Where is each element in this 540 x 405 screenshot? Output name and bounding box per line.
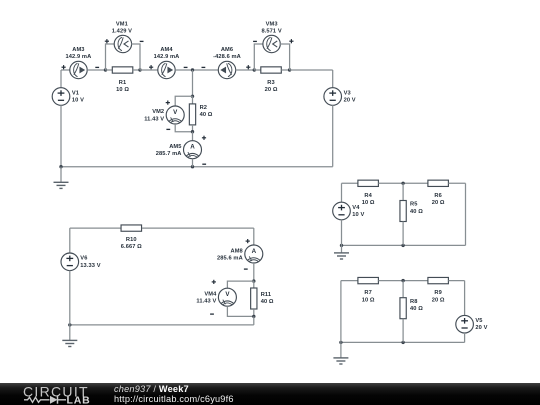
wire V3 top lead — [332, 70, 334, 88]
voltage source V5 — [456, 315, 474, 333]
wire to AM5 — [192, 132, 194, 141]
wire R3 to V3 — [290, 69, 333, 71]
resistor R11 — [251, 288, 257, 309]
svg-text:285.7 mA: 285.7 mA — [156, 151, 182, 157]
svg-text:LAB: LAB — [67, 394, 91, 405]
svg-text:13.33 V: 13.33 V — [80, 263, 100, 269]
wire bottom rail top circuit — [61, 166, 333, 168]
wire R8 top lead — [402, 281, 404, 298]
wire VM4 bottom branch — [227, 306, 253, 316]
svg-text:AM6: AM6 — [221, 47, 233, 53]
wire AM5 to rail — [192, 159, 194, 167]
plus mark AM3 — [62, 65, 66, 69]
node A junction — [191, 68, 194, 71]
wire R11 bottom lead — [253, 309, 255, 316]
node ground junction lower-right — [339, 341, 342, 344]
wire VM1 right branch — [131, 44, 140, 70]
logo resistor zigzag — [24, 397, 50, 402]
svg-text:AM5: AM5 — [169, 144, 181, 150]
wire R3 right lead — [281, 69, 289, 71]
minus mark AM4 — [184, 66, 188, 68]
svg-text:R8: R8 — [410, 299, 417, 305]
voltage source V6 — [61, 253, 79, 271]
node R1 right junction — [138, 68, 141, 71]
resistor R1 — [112, 67, 133, 73]
svg-text:AM3: AM3 — [72, 47, 84, 53]
resistor R3 — [261, 67, 282, 73]
svg-text:AM8: AM8 — [230, 248, 242, 254]
ammeter AM6 — [218, 61, 235, 78]
voltage source V3 — [324, 88, 342, 106]
svg-text:R4: R4 — [364, 193, 372, 199]
CircuitLab logo — [0, 383, 110, 405]
svg-text:11.43 V: 11.43 V — [144, 116, 164, 122]
wire R6 to right corner — [448, 182, 465, 184]
wire node A down — [192, 70, 194, 96]
wire V1 to AM3 — [61, 69, 70, 71]
resistor R6 — [428, 180, 449, 186]
plus mark AM6 — [246, 65, 250, 69]
wire R5 bottom lead — [402, 222, 404, 246]
resistor R10 — [121, 225, 142, 231]
plus mark AM4 — [149, 65, 153, 69]
resistor R4 — [358, 180, 379, 186]
wire AM8 to node — [253, 263, 255, 281]
wire V3 bottom lead — [332, 105, 334, 167]
minus mark VM4 — [210, 313, 214, 315]
minus mark AM8 — [244, 268, 248, 270]
wire R3 left lead — [254, 69, 260, 71]
wire R2 top lead — [192, 96, 194, 104]
svg-text:10 Ω: 10 Ω — [116, 87, 129, 93]
wire AM3 to node — [87, 69, 105, 71]
svg-text:R2: R2 — [200, 105, 207, 111]
wire R7 to R9 — [378, 280, 428, 282]
voltmeter VM4 — [218, 288, 236, 306]
wire R2 bottom lead — [192, 125, 194, 132]
resistor R8 — [400, 298, 406, 319]
svg-text:142.9 mA: 142.9 mA — [154, 54, 180, 60]
svg-text:20 Ω: 20 Ω — [432, 200, 445, 206]
svg-text:20 Ω: 20 Ω — [265, 87, 278, 93]
wire R1 to AM4 — [140, 69, 158, 71]
svg-text:285.6 mA: 285.6 mA — [217, 256, 243, 262]
svg-text:V3: V3 — [344, 90, 351, 96]
minus mark AM5 — [202, 163, 206, 165]
minus mark VM1 — [140, 40, 144, 42]
wire VM2 bottom branch — [175, 124, 192, 132]
resistor R7 — [358, 277, 379, 283]
wire VM3 right branch — [280, 44, 290, 70]
svg-text:VM1: VM1 — [116, 21, 128, 27]
svg-text:20 V: 20 V — [475, 325, 487, 331]
svg-text:40 Ω: 40 Ω — [410, 209, 423, 215]
plus mark VM3 — [289, 39, 293, 43]
wire V4 top lead — [341, 183, 343, 202]
svg-text:40 Ω: 40 Ω — [200, 112, 213, 118]
wire bottom rail lower-right circuit — [341, 341, 465, 343]
ground lower-right circuit — [333, 342, 348, 364]
resistor R9 — [428, 277, 449, 283]
wire V6 bottom lead — [69, 271, 71, 325]
svg-text:10 V: 10 V — [352, 212, 364, 218]
node R11 top junction — [252, 279, 255, 282]
plus mark VM2 — [166, 101, 170, 105]
svg-text:10 Ω: 10 Ω — [362, 297, 375, 303]
wire left to R7 — [341, 280, 358, 282]
wire V6 to R10 — [70, 227, 121, 229]
wire R4 to R6 — [378, 182, 428, 184]
svg-text:R5: R5 — [410, 202, 417, 208]
svg-text:VM4: VM4 — [204, 292, 217, 298]
wire V4 to R4 — [342, 182, 358, 184]
svg-text:A: A — [190, 144, 195, 151]
ammeter AM5 — [184, 141, 202, 159]
wire left side lower-right circuit — [340, 281, 342, 343]
svg-text:R6: R6 — [434, 193, 441, 199]
voltage source V4 — [333, 202, 351, 220]
footer bar — [0, 383, 540, 405]
footer title text — [114, 384, 189, 394]
node R1 left junction — [104, 68, 107, 71]
svg-text:20 Ω: 20 Ω — [432, 297, 445, 303]
ground mid circuit — [334, 245, 349, 259]
wire R10 to AM8 corner — [142, 227, 254, 229]
wire V5 bottom lead — [464, 333, 466, 343]
svg-text:R1: R1 — [119, 80, 126, 86]
wire R1 right lead — [133, 69, 140, 71]
wire R5 top lead — [402, 183, 404, 200]
svg-text:6.667 Ω: 6.667 Ω — [121, 244, 142, 250]
logo diode — [50, 396, 58, 404]
plus mark VM1 — [105, 39, 109, 43]
wire V4 bottom lead — [341, 220, 343, 246]
ground lower-left circuit — [62, 325, 77, 347]
node AM5 bottom junction — [191, 165, 194, 168]
svg-text:10 Ω: 10 Ω — [362, 200, 375, 206]
svg-text:10 V: 10 V — [72, 98, 84, 104]
node ground junction top circuit — [59, 165, 62, 168]
wire bottom rail mid circuit — [342, 244, 466, 246]
wire R11 top lead — [253, 281, 255, 288]
svg-text:1.429 V: 1.429 V — [112, 29, 132, 35]
svg-text:VM2: VM2 — [152, 109, 164, 115]
svg-text:R11: R11 — [261, 292, 271, 298]
minus mark VM2 — [166, 128, 170, 130]
resistor R2 — [189, 104, 195, 125]
node R2 bottom junction — [191, 130, 194, 133]
node R5 top junction — [401, 182, 404, 185]
ammeter AM3 — [70, 61, 87, 78]
voltmeter VM2 — [166, 106, 184, 124]
svg-text:11.43 V: 11.43 V — [196, 299, 216, 305]
svg-text:V4: V4 — [352, 205, 360, 211]
wire right side mid circuit — [465, 183, 467, 245]
voltmeter VM1 — [114, 35, 131, 52]
wire VM4 top branch — [227, 281, 253, 288]
svg-text:R10: R10 — [126, 237, 137, 243]
svg-text:V6: V6 — [80, 256, 87, 262]
wire V5 top lead — [464, 281, 466, 316]
plus mark VM4 — [212, 280, 216, 284]
node ground junction mid circuit — [340, 244, 343, 247]
node ground junction lower-left — [68, 323, 71, 326]
wire VM3 left branch — [254, 44, 263, 70]
wire R9 to right corner — [448, 280, 464, 282]
wire VM2 top branch — [175, 96, 192, 106]
node R5 bottom junction — [401, 244, 404, 247]
svg-text:8.571 V: 8.571 V — [261, 29, 281, 35]
svg-text:R7: R7 — [364, 290, 371, 296]
wire down to AM8 — [253, 228, 255, 245]
wire AM4 to AM6 — [175, 69, 218, 71]
plus mark AM8 — [246, 239, 250, 243]
ground top circuit — [54, 167, 69, 189]
svg-text:40 Ω: 40 Ω — [261, 299, 274, 305]
svg-text:-428.6 mA: -428.6 mA — [213, 54, 241, 60]
svg-text:VM3: VM3 — [266, 21, 278, 27]
svg-text:142.9 mA: 142.9 mA — [66, 54, 92, 60]
wire VM1 left branch — [106, 44, 115, 70]
wire V1 bottom lead — [60, 105, 62, 167]
voltage source V1 — [52, 88, 70, 106]
node R3 right junction — [288, 68, 291, 71]
node R11 bottom junction — [252, 315, 255, 318]
node R8 bottom junction — [401, 341, 404, 344]
svg-text:AM4: AM4 — [160, 47, 173, 53]
svg-text:R3: R3 — [267, 80, 274, 86]
wire to bottom rail — [253, 316, 255, 325]
svg-text:20 V: 20 V — [344, 98, 356, 104]
svg-text:R9: R9 — [434, 290, 441, 296]
node R2 top junction — [191, 95, 194, 98]
minus mark VM3 — [253, 40, 257, 42]
svg-text:40 Ω: 40 Ω — [410, 306, 423, 312]
wire R1 left lead — [106, 69, 113, 71]
minus mark AM3 — [95, 66, 99, 68]
wire bottom rail lower-left circuit — [70, 324, 254, 326]
minus mark AM6 — [202, 66, 206, 68]
wire V1 top lead — [60, 70, 62, 88]
wire V6 top lead — [69, 228, 71, 253]
resistor R5 — [400, 201, 406, 222]
ammeter AM4 — [158, 61, 175, 78]
svg-text:V5: V5 — [475, 318, 482, 324]
plus mark AM5 — [202, 136, 206, 140]
node R8 top junction — [401, 279, 404, 282]
ammeter AM8 — [245, 245, 263, 263]
node R3 left junction — [253, 68, 256, 71]
svg-text:A: A — [252, 248, 257, 255]
wire R8 bottom lead — [402, 319, 404, 343]
wire AM6 to node — [236, 69, 255, 71]
svg-text:V1: V1 — [72, 90, 79, 96]
voltmeter VM3 — [263, 35, 280, 52]
